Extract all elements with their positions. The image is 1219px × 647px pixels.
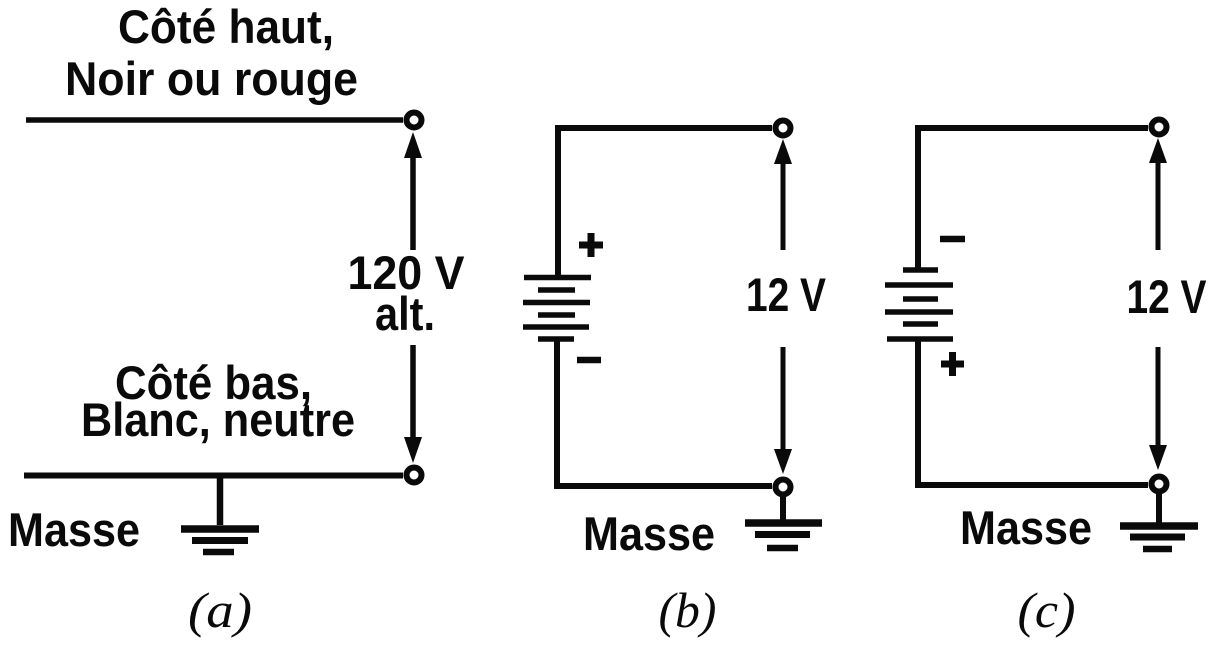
voltage arrow upper shaft (a) xyxy=(410,154,416,250)
voltage arrow up head (a) xyxy=(404,132,422,158)
voltage arrow up head (b) xyxy=(774,139,792,164)
svg-text:Noir ou rouge: Noir ou rouge xyxy=(65,52,358,105)
battery B1 plate short1 (b) xyxy=(538,287,575,293)
label: + terminal (b) xyxy=(579,233,603,257)
wire: hot side top conductor (a) xyxy=(26,117,403,123)
voltage arrow lower shaft (b) xyxy=(781,347,786,452)
label: (b) xyxy=(659,582,717,638)
svg-text:alt.: alt. xyxy=(375,287,435,340)
battery B2 plate short1 (c) xyxy=(903,267,938,273)
voltage arrow lower shaft (c) xyxy=(1156,347,1161,449)
label: Côté bas, xyxy=(115,356,312,409)
battery B1 plate long1 (b) xyxy=(524,275,591,281)
battery B2 plate long1 (c) xyxy=(885,282,953,288)
svg-text:Blanc, neutre: Blanc, neutre xyxy=(81,393,355,446)
label: (a) xyxy=(188,582,252,638)
node: neutral terminal (a) xyxy=(407,468,422,483)
ground bar 2 (c) xyxy=(1130,534,1185,541)
ground bar 1 (a) xyxy=(181,525,259,533)
voltage arrow up head (c) xyxy=(1149,138,1167,163)
wire: neutral side bottom conductor (a) xyxy=(24,473,403,479)
wire: top + left upper (c) xyxy=(918,128,1148,270)
label: 12 V (b) xyxy=(746,268,827,321)
voltage arrow down head (a) xyxy=(404,437,422,463)
label: - terminal (b) xyxy=(577,357,601,364)
voltage arrow down head (c) xyxy=(1149,445,1167,470)
label: - terminal (c) xyxy=(940,236,965,243)
svg-text:(a): (a) xyxy=(188,582,252,638)
ground bar 1 (c) xyxy=(1120,522,1198,530)
battery B1 plate short2 (b) xyxy=(538,312,575,318)
svg-text:Masse: Masse xyxy=(960,501,1092,554)
label: (c) xyxy=(1018,582,1076,638)
label: Masse (c) xyxy=(960,501,1092,554)
battery B2 plate short3 (c) xyxy=(903,321,938,327)
voltage arrow lower shaft (a) xyxy=(410,345,416,442)
node: bottom (c) xyxy=(1152,477,1167,492)
ground bar 2 (b) xyxy=(755,531,810,538)
voltage arrow upper shaft (b) xyxy=(781,161,786,250)
node: top (b) xyxy=(776,121,791,136)
label: 12 V (c) xyxy=(1127,270,1208,323)
label: Noir ou rouge xyxy=(65,52,358,105)
battery B2 plate long3 (c) xyxy=(887,336,953,342)
battery B1 plate long2 (b) xyxy=(523,300,590,306)
label: Blanc, neutre xyxy=(81,393,355,446)
voltage arrow down head (b) xyxy=(774,449,792,474)
label: Masse (b) xyxy=(583,507,715,560)
ground bar 3 (b) xyxy=(767,545,798,552)
svg-text:(b): (b) xyxy=(659,582,717,638)
ground bar 3 (c) xyxy=(1143,546,1172,553)
svg-text:12 V: 12 V xyxy=(746,268,827,321)
label: + terminal (c) xyxy=(941,352,964,376)
label: 120 V xyxy=(348,246,466,299)
svg-text:Côté haut,: Côté haut, xyxy=(118,0,334,53)
wire: left lower + bottom (c) xyxy=(918,339,1148,485)
svg-text:Masse: Masse xyxy=(583,507,715,560)
battery B2 plate short2 (c) xyxy=(903,296,938,302)
label: Masse (a) xyxy=(8,503,140,556)
label: Côté haut, xyxy=(118,0,334,53)
ground stem (c) xyxy=(1156,492,1162,523)
voltage arrow upper shaft (c) xyxy=(1156,160,1161,250)
ground stem (a) xyxy=(217,478,224,525)
wire: top + left upper (b) xyxy=(558,128,772,277)
ground bar 2 (a) xyxy=(192,537,248,544)
battery B1 plate long3 (b) xyxy=(523,324,589,330)
svg-text:Masse: Masse xyxy=(8,503,140,556)
svg-text:12 V: 12 V xyxy=(1127,270,1208,323)
ground stem (b) xyxy=(780,495,786,521)
svg-text:(c): (c) xyxy=(1018,582,1076,638)
wire: left lower + bottom (b) xyxy=(557,339,772,486)
battery B1 plate short3 (b) xyxy=(538,336,574,342)
label: alt. xyxy=(375,287,435,340)
battery B2 plate long2 (c) xyxy=(885,309,953,315)
node: bottom (b) xyxy=(776,480,791,495)
ground bar 1 (b) xyxy=(745,519,822,527)
ground bar 3 (a) xyxy=(203,549,234,556)
node: hot terminal (a) xyxy=(407,113,422,128)
node: top (c) xyxy=(1152,120,1167,135)
